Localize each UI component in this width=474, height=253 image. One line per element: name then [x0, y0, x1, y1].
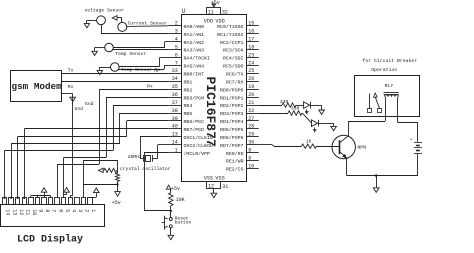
svg-text:crystal oscillator: crystal oscillator: [120, 166, 171, 172]
svg-text:+5v: +5v: [112, 200, 121, 206]
svg-text:RB2: RB2: [184, 87, 193, 93]
svg-text:14: 14: [5, 209, 11, 215]
svg-text:Tx: Tx: [153, 68, 159, 74]
svg-text:34: 34: [172, 76, 178, 82]
svg-text:Temp Sensor: Temp Sensor: [115, 51, 146, 57]
svg-text:Gnd: Gnd: [85, 101, 94, 107]
svg-text:RB4: RB4: [184, 103, 193, 109]
svg-text:RC5/SDO: RC5/SDO: [223, 64, 244, 70]
svg-text:8: 8: [44, 209, 50, 212]
svg-text:U: U: [182, 8, 186, 15]
svg-text:16: 16: [248, 29, 254, 35]
svg-text:9: 9: [248, 155, 251, 161]
svg-text:7: 7: [175, 60, 178, 66]
svg-text:RD0/PSP0: RD0/PSP0: [220, 87, 244, 93]
svg-text:gsm Modem: gsm Modem: [12, 81, 63, 92]
svg-text:2: 2: [84, 209, 90, 212]
svg-text:15: 15: [248, 21, 254, 27]
svg-text:12: 12: [18, 209, 24, 215]
svg-text:31: 31: [222, 184, 228, 190]
svg-text:19: 19: [248, 84, 254, 90]
svg-text:330: 330: [291, 105, 300, 111]
svg-text:RE0/RD: RE0/RD: [226, 151, 244, 157]
svg-text:RB1: RB1: [184, 79, 193, 85]
svg-text:RA5/AN4: RA5/AN4: [184, 64, 205, 70]
svg-text:RB7/PGD: RB7/PGD: [184, 127, 205, 133]
svg-text:4: 4: [175, 36, 178, 42]
svg-text:RA2/AN2: RA2/AN2: [184, 40, 205, 46]
svg-text:VDD: VDD: [215, 18, 224, 24]
svg-text:VSS: VSS: [204, 175, 213, 181]
svg-text:RD7/PSP7: RD7/PSP7: [220, 143, 244, 149]
svg-text:39: 39: [172, 116, 178, 122]
svg-text:5: 5: [175, 44, 178, 50]
svg-text:RD4/PSP4: RD4/PSP4: [220, 119, 244, 125]
svg-text:11: 11: [24, 209, 30, 215]
svg-text:22: 22: [248, 108, 254, 114]
svg-text:11: 11: [208, 10, 214, 16]
svg-text:RA1/AN1: RA1/AN1: [184, 32, 205, 38]
svg-text:Gnd: Gnd: [75, 106, 84, 112]
svg-text:RD2/PSP2: RD2/PSP2: [220, 103, 244, 109]
svg-text:voltage Sensor: voltage Sensor: [85, 7, 125, 13]
svg-text:RA4/T0CKI: RA4/T0CKI: [184, 56, 210, 62]
svg-text:Temp Sensor: Temp Sensor: [121, 67, 152, 73]
svg-text:RD6/PSP6: RD6/PSP6: [220, 135, 244, 141]
svg-text:VSS: VSS: [215, 175, 224, 181]
svg-text:RB6/PGC: RB6/PGC: [184, 119, 205, 125]
svg-text:/MCLR/VPP: /MCLR/VPP: [184, 151, 210, 157]
svg-text:37: 37: [172, 100, 178, 106]
svg-text:for Circuit Breaker: for Circuit Breaker: [363, 58, 418, 64]
svg-text:1: 1: [90, 209, 96, 212]
svg-text:LCD Display: LCD Display: [17, 233, 83, 245]
svg-text:RC3/SCK: RC3/SCK: [223, 48, 244, 54]
svg-text:1k: 1k: [306, 139, 312, 145]
svg-text:9: 9: [38, 209, 44, 212]
svg-text:35: 35: [172, 84, 178, 90]
svg-text:3: 3: [77, 209, 83, 212]
svg-text:29: 29: [248, 132, 254, 138]
svg-text:RD3/PSP3: RD3/PSP3: [220, 111, 244, 117]
svg-text:13: 13: [11, 209, 17, 215]
svg-text:button: button: [175, 219, 192, 225]
svg-text:4: 4: [70, 209, 76, 212]
svg-text:RC4/SDI: RC4/SDI: [223, 56, 244, 62]
svg-text:RC1/T1OSI: RC1/T1OSI: [217, 32, 243, 38]
svg-text:6: 6: [175, 52, 178, 58]
svg-text:RLY: RLY: [385, 83, 394, 89]
svg-text:18: 18: [248, 44, 254, 50]
svg-text:RC6/TX: RC6/TX: [226, 71, 244, 77]
svg-text:33: 33: [172, 68, 178, 74]
svg-text:32: 32: [222, 9, 228, 15]
svg-text:Tx: Tx: [68, 68, 74, 74]
svg-text:RD1/PSP1: RD1/PSP1: [220, 95, 244, 101]
svg-text:25: 25: [248, 68, 254, 74]
svg-text:38: 38: [172, 108, 178, 114]
svg-text:13: 13: [172, 132, 178, 138]
svg-text:RC2/CCP1: RC2/CCP1: [220, 40, 244, 46]
svg-text:OSC2/CLKOUT: OSC2/CLKOUT: [184, 143, 216, 149]
svg-text:OSC1/CLKIN: OSC1/CLKIN: [184, 135, 213, 141]
svg-text:330: 330: [280, 99, 289, 105]
svg-text:17: 17: [248, 36, 254, 42]
svg-text:Operation: Operation: [371, 67, 397, 73]
svg-text:RA0/AN0: RA0/AN0: [184, 24, 205, 30]
svg-text:40: 40: [172, 124, 178, 130]
svg-text:6: 6: [57, 209, 63, 212]
svg-text:RB3/PGM: RB3/PGM: [184, 95, 205, 101]
svg-text:RD5/PSP5: RD5/PSP5: [220, 127, 244, 133]
svg-text:NPN: NPN: [357, 144, 366, 150]
svg-text:RB0/INT: RB0/INT: [184, 71, 205, 77]
svg-text:10K: 10K: [176, 197, 185, 203]
svg-text:3: 3: [175, 29, 178, 35]
svg-text:26: 26: [248, 76, 254, 82]
svg-text:24: 24: [248, 60, 254, 66]
svg-text:20: 20: [248, 92, 254, 98]
svg-text:+5v: +5v: [171, 186, 180, 192]
svg-text:23: 23: [248, 52, 254, 58]
svg-text:RC7/RX: RC7/RX: [226, 79, 244, 85]
svg-text:10: 10: [31, 209, 37, 215]
svg-text:7: 7: [51, 209, 57, 212]
svg-text:Rx: Rx: [68, 84, 74, 90]
svg-text:20MHz: 20MHz: [128, 154, 142, 160]
svg-text:VDD: VDD: [204, 18, 213, 24]
svg-text:1: 1: [175, 147, 178, 153]
svg-text:36: 36: [172, 92, 178, 98]
svg-text:+: +: [410, 138, 413, 143]
svg-text:2: 2: [175, 21, 178, 27]
svg-text:8: 8: [248, 147, 251, 153]
svg-text:RE1/WR: RE1/WR: [226, 159, 244, 165]
svg-text:28: 28: [248, 124, 254, 130]
svg-text:RB5: RB5: [184, 111, 193, 117]
svg-text:Rx: Rx: [147, 84, 153, 90]
svg-text:RC0/T1OSO: RC0/T1OSO: [217, 24, 243, 30]
svg-text:5: 5: [64, 209, 70, 212]
svg-text:21: 21: [248, 100, 254, 106]
svg-text:27: 27: [248, 116, 254, 122]
svg-text:30: 30: [248, 140, 254, 146]
svg-text:RA3/AN3: RA3/AN3: [184, 48, 205, 54]
svg-text:RE2/CS: RE2/CS: [226, 167, 244, 173]
svg-text:10: 10: [248, 163, 254, 169]
svg-text:14: 14: [172, 140, 178, 146]
